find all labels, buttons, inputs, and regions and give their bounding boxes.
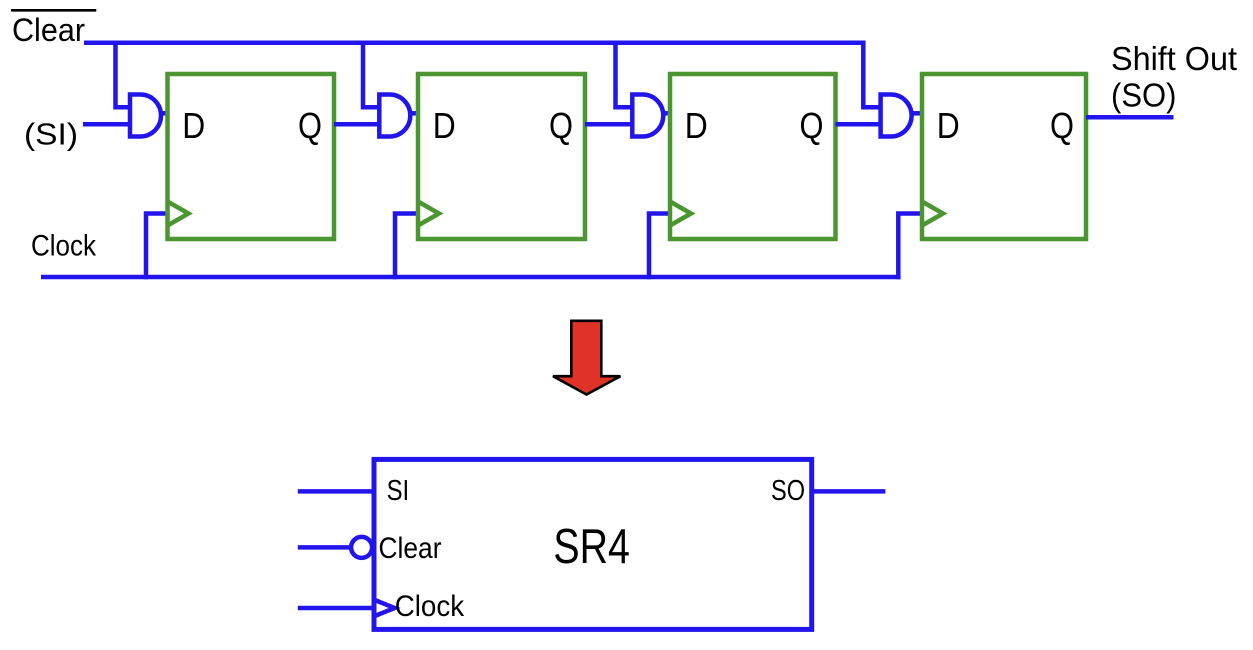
svg-text:Q: Q: [1050, 105, 1074, 146]
net label Clear (active-low) overbar: [11, 9, 96, 12]
wire Q3 to gate U4: [836, 122, 883, 127]
svg-text:D: D: [937, 105, 960, 146]
svg-text:Clear: Clear: [379, 532, 442, 565]
wire Clock riser to FF4: [898, 214, 922, 280]
SR4 Clear inversion bubble: [351, 537, 372, 558]
D flip-flop FF3 body: [670, 74, 836, 239]
wire Q2 to gate U3: [585, 122, 634, 127]
FF1 clock edge triangle: [168, 202, 189, 226]
D flip-flop FF4 body: [922, 74, 1086, 239]
D flip-flop FF2 body: [418, 74, 585, 239]
svg-text:Clock: Clock: [395, 590, 465, 623]
AND gate U3: [632, 95, 663, 137]
svg-text:Shift Out: Shift Out: [1111, 40, 1237, 77]
svg-text:Q: Q: [298, 105, 322, 146]
wire Q1 to gate U2: [334, 122, 381, 127]
wire Clear branch to gate U4: [863, 43, 882, 108]
wire Clear bus: [84, 41, 866, 46]
wire gate U3 output to D3: [660, 111, 672, 116]
red down arrow (abstraction): [553, 321, 620, 395]
svg-text:D: D: [685, 105, 708, 146]
wire SI input to SR4: [298, 489, 374, 494]
svg-text:(SO): (SO): [1111, 76, 1177, 113]
svg-text:Q: Q: [549, 105, 573, 146]
SR4 clock edge triangle: [375, 600, 395, 616]
wire Clock riser to FF2: [395, 214, 418, 280]
wire Clock riser to FF1: [146, 214, 168, 280]
svg-text:Q: Q: [800, 105, 824, 146]
wire Clear branch to gate U2: [363, 43, 381, 108]
svg-text:SR4: SR4: [553, 520, 629, 574]
wire gate U4 output to D4: [909, 111, 924, 116]
FF4 clock edge triangle: [922, 202, 943, 226]
svg-text:SI: SI: [387, 475, 410, 507]
wire Clock bus: [41, 275, 901, 280]
FF3 clock edge triangle: [670, 202, 691, 226]
wire gate U1 output to D1: [158, 111, 170, 116]
wire SI input: [83, 122, 132, 127]
svg-text:Clear: Clear: [12, 12, 85, 48]
svg-text:D: D: [433, 105, 456, 146]
wire Clear input to SR4: [298, 545, 351, 550]
AND gate U1: [130, 95, 161, 137]
svg-text:Clock: Clock: [31, 230, 97, 263]
wire Shift Out (SO) from Q4: [1086, 115, 1174, 120]
svg-text:D: D: [182, 105, 205, 146]
FF2 clock edge triangle: [418, 202, 439, 226]
svg-text:SO: SO: [771, 475, 805, 507]
wire gate U2 output to D2: [407, 111, 420, 116]
SR4 block symbol body: [374, 459, 812, 629]
wire Clear branch to gate U3: [616, 43, 635, 108]
svg-text:(SI): (SI): [24, 117, 78, 152]
wire Clock input to SR4: [298, 606, 372, 611]
AND gate U2: [379, 95, 410, 137]
AND gate U4: [881, 95, 912, 137]
wire Clear branch to gate U1: [116, 43, 133, 108]
D flip-flop FF1 body: [168, 74, 335, 239]
wire SO output from SR4: [812, 489, 886, 494]
wire Clock riser to FF3: [649, 214, 670, 280]
